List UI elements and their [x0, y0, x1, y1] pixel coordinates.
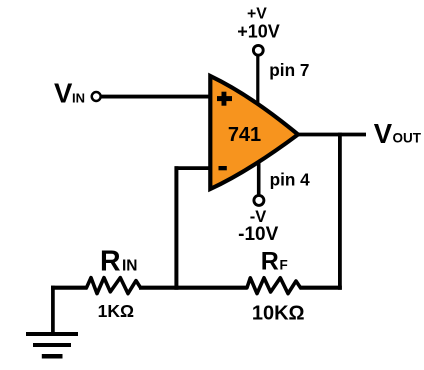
svg-text:OUT: OUT: [393, 131, 422, 146]
svg-text:pin 4: pin 4: [270, 169, 311, 189]
svg-text:R: R: [100, 246, 121, 278]
svg-text:R: R: [261, 248, 279, 276]
svg-text:IN: IN: [72, 90, 85, 105]
wire: output vertical branch down to R_F: [338, 133, 342, 290]
svg-text:-10V: -10V: [238, 224, 278, 245]
op-amp U1 741 triangle: [210, 76, 298, 189]
wire: output horizontal: [296, 133, 366, 137]
label R_IN: [100, 246, 138, 278]
label V_IN: [54, 77, 85, 108]
wire: bottom rail middle (R_IN to R_F through feedback node): [139, 286, 248, 290]
wire: ground lead vertical: [51, 286, 55, 334]
svg-text:10KΩ: 10KΩ: [252, 303, 305, 325]
wire: feedback horizontal to inverting input: [175, 166, 211, 170]
svg-text:1KΩ: 1KΩ: [98, 301, 134, 321]
svg-text:IN: IN: [122, 258, 138, 275]
svg-text:V: V: [54, 77, 73, 108]
resistor R_F zigzag: [247, 278, 301, 294]
wire: V_IN to non-inverting input: [101, 95, 212, 99]
op-amp inverting - symbol: [219, 166, 227, 170]
wire: +V supply lead into pin 7: [256, 55, 259, 106]
terminal circle: +V supply: [253, 45, 263, 55]
svg-text:741: 741: [228, 124, 261, 146]
label V_OUT: [374, 118, 422, 149]
wire: bottom rail right (R_F to output branch corner): [300, 286, 342, 290]
wire: bottom rail left (ground to R_IN): [51, 286, 88, 290]
svg-text:V: V: [374, 118, 393, 149]
ground symbol: [26, 334, 78, 356]
wire: feedback vertical: [174, 166, 178, 289]
wire: -V supply lead from pin 4: [257, 158, 261, 196]
op-amp non-inverting + symbol: [217, 92, 232, 106]
resistor R_IN zigzag: [87, 278, 141, 294]
terminal circle: -V supply: [254, 195, 264, 205]
svg-text:+10V: +10V: [237, 22, 280, 42]
svg-text:F: F: [280, 258, 288, 273]
svg-text:pin 7: pin 7: [269, 60, 309, 80]
svg-text:+V: +V: [247, 5, 267, 22]
terminal circle: V_IN input: [92, 92, 101, 101]
label R_F: [261, 248, 288, 276]
